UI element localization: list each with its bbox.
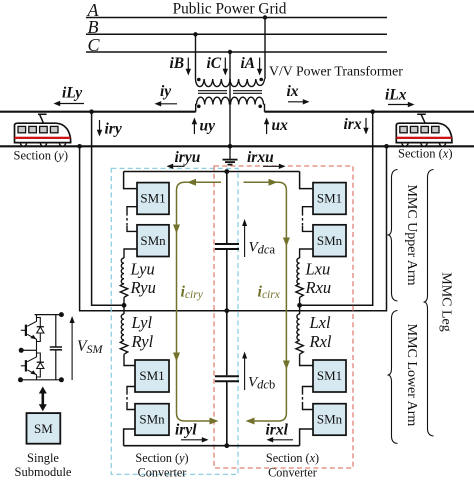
wire: Ryl to SM1 left lower: [124, 354, 135, 365]
svg-text:SM1: SM1: [317, 191, 342, 206]
svg-text:iciry: iciry: [181, 284, 204, 302]
wire: catenary left section: [0, 111, 196, 113]
svg-text:Lyl: Lyl: [131, 313, 153, 332]
submodule SM1 right lower: [313, 360, 346, 392]
svg-text:Rxl: Rxl: [309, 332, 332, 351]
capacitor Vdca: [215, 244, 239, 249]
brace: MMC lower arm: [388, 311, 398, 444]
resistor Rxl: [296, 340, 303, 354]
submodule SMn right upper: [313, 225, 346, 257]
transformer core T1: [198, 91, 227, 94]
label: Single Submodule: [15, 451, 72, 479]
train left wheels: [20, 140, 65, 146]
ground symbol: [223, 146, 238, 164]
svg-text:SMn: SMn: [317, 233, 343, 248]
wire: dashed ellipsis right upper: [302, 213, 304, 226]
transistor Q1 (upper IGBT): [21, 315, 37, 351]
label: Section (x) Converter: [266, 451, 319, 479]
wire: phase line C: [86, 51, 387, 53]
svg-text:uy: uy: [200, 118, 216, 135]
wire: SMn to bottom rail right: [300, 429, 313, 446]
svg-text:Single: Single: [27, 451, 59, 465]
wire: SMn to inductor left upper: [124, 249, 137, 258]
wire: right track drop to dc midpoint: [227, 146, 387, 310]
wire: phase line B: [86, 33, 387, 35]
wire: right catenary drop to arm midpoint: [300, 112, 373, 306]
converter box section x (red dashed): [214, 166, 353, 468]
label: Section (y) Converter: [135, 451, 188, 479]
arrow: iy left: [155, 101, 178, 106]
svg-text:iB: iB: [170, 55, 185, 72]
wire: link to SMn right upper: [303, 226, 314, 231]
submodule SM1 left lower: [135, 360, 169, 392]
wire: dc capacitor leg upper: [226, 172, 228, 244]
inductor Lyl: [121, 314, 124, 340]
svg-text:Ryl: Ryl: [131, 332, 154, 351]
diode D2 (lower): [37, 353, 44, 377]
wire: SM1-SMn link left upper: [127, 207, 137, 213]
svg-text:SMn: SMn: [317, 412, 343, 427]
arrow: voltage uy up: [192, 118, 197, 135]
wire: link to SMn left lower: [127, 404, 135, 410]
wire: dashed ellipsis left upper: [126, 213, 128, 226]
submodule SM1 left upper: [137, 183, 169, 215]
svg-text:Section (y): Section (y): [135, 451, 188, 465]
wire: Rxl to SM1 right lower: [300, 354, 313, 365]
svg-text:iLx: iLx: [385, 87, 407, 104]
wire: right upper arm top: [300, 172, 313, 189]
arrow: iLy left: [54, 101, 85, 106]
wire: dc capacitor leg lower: [226, 382, 228, 446]
node: track right junction: [384, 144, 389, 149]
wire: SM detail bottom rail: [21, 379, 62, 381]
arrow: iA down: [257, 58, 262, 76]
arrow: iciry bottom right: [210, 418, 219, 425]
submodule SMn left upper: [137, 225, 169, 257]
train left body: [15, 123, 71, 142]
node: phase B tap: [193, 32, 197, 36]
resistor Ryu: [120, 283, 127, 297]
svg-text:Lxu: Lxu: [305, 260, 331, 279]
svg-text:MMC Upper Arm: MMC Upper Arm: [404, 184, 419, 285]
node: dc midpoint: [224, 308, 229, 313]
svg-text:SM1: SM1: [140, 191, 165, 206]
svg-text:SM1: SM1: [139, 368, 164, 383]
wire: phase line A: [86, 17, 387, 19]
svg-text:Converter: Converter: [268, 465, 317, 479]
transformer T1 primary winding 1: [196, 79, 231, 87]
wire: dc top rail: [124, 171, 300, 173]
arrow: icirx top right: [269, 179, 278, 186]
svg-text:icirx: icirx: [258, 284, 281, 302]
node: SM detail middle terminal: [19, 348, 24, 353]
svg-text:iC: iC: [207, 55, 222, 72]
submodule SM1 right upper: [313, 183, 346, 215]
arrow: iry down: [97, 120, 102, 137]
wire: circulating loop icirx (olive): [244, 182, 287, 421]
node: dc top rail junction: [224, 169, 229, 174]
wire: midpoint to Lyl: [123, 305, 125, 314]
wire: left catenary drop to arm midpoint: [92, 112, 124, 306]
submodule detail: top rail: [35, 314, 62, 316]
svg-text:Lyu: Lyu: [130, 260, 155, 279]
arrow: icirx down lower: [283, 361, 290, 370]
svg-text:SM1: SM1: [317, 368, 342, 383]
wire: SM1-SMn link left lower: [127, 387, 135, 393]
wire: phase C drop / transformer centre tap: [229, 52, 231, 146]
wire: SM1-SMn link right lower: [303, 387, 314, 393]
wire: Ryu to midpoint: [123, 297, 125, 305]
wire: dc bottom rail: [124, 445, 300, 447]
train right red stripe: [396, 137, 452, 139]
wire: SM1-SMn link right upper: [303, 207, 314, 213]
train left windows: [18, 126, 58, 132]
arrow: iC down: [223, 58, 228, 76]
svg-text:MMC Lower Arm: MMC Lower Arm: [404, 324, 419, 427]
node: left arm midpoint: [122, 303, 127, 308]
diode D1 (upper): [37, 318, 44, 342]
svg-text:Vdcb: Vdcb: [248, 375, 275, 392]
train left red stripe: [15, 137, 71, 139]
submodule SMn right lower: [313, 404, 346, 436]
node: phase C tap: [228, 50, 232, 54]
capacitor Vdcb: [215, 376, 239, 381]
arrow: iciry down lower: [173, 353, 180, 362]
node: catenary left junction: [89, 109, 94, 114]
wire: link to SMn left upper: [127, 226, 137, 231]
arrow: iryu left: [167, 164, 185, 169]
transformer T2 primary winding 2: [230, 79, 265, 87]
train right wheels: [402, 140, 446, 146]
arrow: irx down: [363, 118, 368, 135]
svg-text:Vdca: Vdca: [249, 240, 276, 257]
node: SM detail top right terminal: [59, 312, 64, 317]
svg-text:V/V Power Transformer: V/V Power Transformer: [269, 64, 403, 79]
node: SM detail bottom right terminal: [59, 377, 64, 382]
svg-text:iy: iy: [160, 83, 171, 100]
svg-text:Rxu: Rxu: [305, 278, 332, 297]
polarity dot T1 primary: [197, 78, 201, 82]
svg-text:Submodule: Submodule: [15, 465, 72, 479]
arrow: icirx down upper: [283, 238, 290, 247]
transformer T2 secondary winding: [231, 97, 264, 104]
svg-text:ux: ux: [272, 117, 289, 134]
polarity dot T1 secondary: [197, 105, 201, 109]
wire: left track drop to dc midpoint: [80, 146, 227, 310]
arrow: Vdca up: [242, 219, 247, 257]
svg-text:SM: SM: [34, 421, 53, 436]
node: catenary right junction: [370, 109, 375, 114]
resistor Ryl: [120, 340, 127, 354]
svg-text:SMn: SMn: [140, 233, 166, 248]
svg-text:iLy: iLy: [62, 85, 82, 102]
resistor Rxu: [296, 283, 303, 297]
svg-text:Section (y): Section (y): [14, 149, 69, 163]
polarity dot T2 primary: [259, 78, 263, 82]
wire: SM detail middle rail: [21, 349, 36, 351]
arrow: voltage ux up: [264, 118, 269, 135]
wire: phase A drop to transformer: [264, 18, 266, 80]
arrow: irxl left: [267, 437, 294, 442]
arrow: iciry top left: [187, 179, 196, 186]
arrow: Vdcb up: [242, 352, 247, 391]
wire: Rxu to midpoint: [299, 297, 301, 305]
transformer T1 secondary winding: [197, 97, 230, 104]
svg-text:Section (x): Section (x): [266, 451, 319, 465]
wire: link to SMn right lower: [303, 404, 314, 410]
brace: MMC upper arm: [388, 170, 398, 302]
submodule SMn left lower: [135, 404, 169, 436]
wire: secondary right terminal: [263, 105, 266, 112]
wire: secondary left terminal: [195, 105, 198, 112]
wire: phase B drop to transformer: [195, 34, 197, 79]
node: phase A tap: [263, 15, 267, 19]
transistor Q2 (lower IGBT): [21, 350, 37, 380]
svg-text:C: C: [88, 35, 101, 55]
wire: dc capacitor leg middle: [226, 250, 228, 375]
svg-text:Section (x): Section (x): [398, 146, 453, 160]
svg-text:irx: irx: [344, 116, 362, 133]
arrow: double-headed SM equivalence: [39, 387, 47, 412]
svg-text:Lxl: Lxl: [309, 313, 332, 332]
wire: catenary right section: [265, 111, 474, 113]
svg-text:ix: ix: [287, 83, 299, 100]
svg-text:iry: iry: [105, 121, 122, 138]
capacitor C_SM: [50, 315, 62, 380]
svg-text:Ryu: Ryu: [130, 278, 156, 297]
node: dc bottom rail junction: [224, 443, 229, 448]
inductor Lxl: [297, 314, 300, 340]
wire: rail track: [0, 145, 474, 147]
wire: midpoint to Lxl: [299, 305, 301, 314]
arrow: iB down: [186, 58, 191, 76]
svg-text:iryl: iryl: [175, 422, 197, 439]
node: right arm midpoint: [297, 303, 302, 308]
arrow: icirx bottom left: [246, 418, 255, 425]
submodule SM block: [27, 413, 61, 444]
node: SM detail bottom left terminal: [18, 377, 23, 382]
wire: circulating loop iciry (olive): [177, 182, 222, 421]
brace: MMC leg: [424, 170, 434, 437]
svg-text:MMC Leg: MMC Leg: [439, 272, 454, 332]
inductor Lyu: [121, 258, 124, 284]
arrow: iLx right: [388, 102, 415, 107]
arrow: irxu right: [263, 164, 286, 169]
converter box section y (blue dashed): [111, 168, 238, 474]
svg-text:iA: iA: [241, 55, 256, 72]
svg-text:irxl: irxl: [266, 422, 289, 439]
polarity dot T2 secondary: [258, 105, 262, 109]
svg-text:VSM: VSM: [77, 338, 103, 356]
train right pantograph: [417, 114, 426, 123]
inductor Lxu: [297, 258, 300, 284]
wire: SMn to bottom rail left: [124, 429, 135, 446]
train right windows: [400, 126, 439, 132]
svg-text:SMn: SMn: [139, 412, 165, 427]
train left pantograph: [38, 114, 47, 123]
wire: dashed ellipsis right lower: [302, 392, 304, 404]
node: track left junction: [77, 144, 82, 149]
svg-text:Public Power Grid: Public Power Grid: [173, 1, 287, 18]
arrow: iryl right: [181, 437, 209, 442]
train right body: [396, 123, 452, 142]
arrow: VSM up: [70, 316, 75, 380]
arrow: iciry down upper: [173, 225, 180, 234]
svg-text:Converter: Converter: [138, 465, 187, 479]
svg-text:irxu: irxu: [247, 149, 274, 166]
wire: SMn to inductor right upper: [300, 249, 313, 258]
wire: left upper arm top: [124, 172, 137, 189]
svg-text:iryu: iryu: [175, 149, 201, 166]
wire: dashed ellipsis left lower: [126, 392, 128, 404]
arrow: ix right: [288, 99, 310, 104]
node: track centre-tap junction: [228, 144, 233, 149]
transformer core T2: [233, 91, 262, 94]
